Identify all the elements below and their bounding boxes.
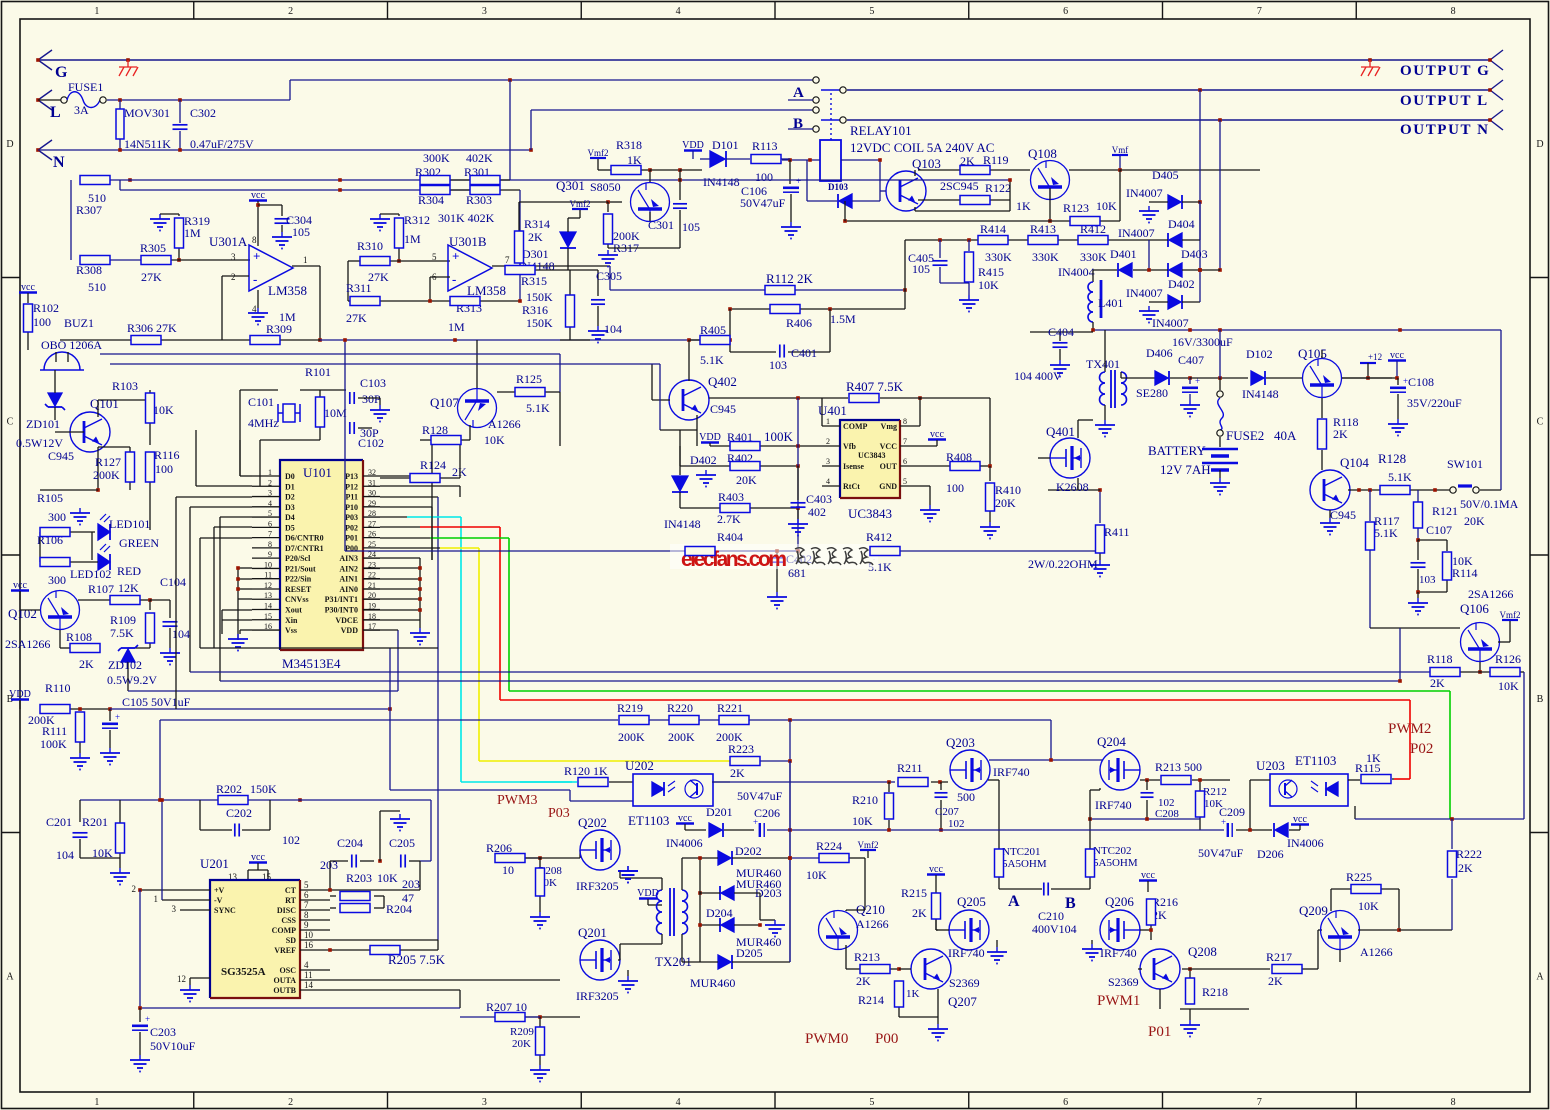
svg-text:L401: L401 — [1098, 296, 1123, 310]
svg-text:P02: P02 — [1410, 741, 1433, 757]
svg-text:R219: R219 — [617, 701, 643, 715]
svg-text:0.5W12V: 0.5W12V — [16, 436, 63, 450]
svg-text:VCC: VCC — [880, 442, 898, 451]
svg-text:203: 203 — [402, 877, 420, 891]
svg-text:A1266: A1266 — [856, 917, 889, 931]
svg-text:C404: C404 — [1048, 325, 1074, 339]
svg-text:50V47uF: 50V47uF — [1198, 846, 1244, 860]
svg-text:3A: 3A — [74, 103, 89, 117]
svg-text:12: 12 — [177, 974, 186, 984]
svg-text:R311: R311 — [346, 281, 372, 295]
svg-text:6: 6 — [1063, 1097, 1068, 1108]
svg-text:2K: 2K — [1430, 676, 1445, 690]
svg-text:PWM0: PWM0 — [805, 1031, 848, 1047]
svg-text:R310: R310 — [357, 239, 383, 253]
svg-text:U301B: U301B — [449, 234, 487, 249]
svg-text:+12: +12 — [1368, 352, 1382, 362]
svg-text:D: D — [1536, 139, 1543, 150]
svg-text:2SA1266: 2SA1266 — [5, 637, 50, 651]
svg-text:P00: P00 — [875, 1031, 898, 1047]
svg-text:B: B — [1065, 895, 1076, 912]
svg-text:D0: D0 — [285, 472, 295, 481]
svg-text:27K: 27K — [346, 311, 367, 325]
svg-text:50V47uF: 50V47uF — [737, 789, 783, 803]
svg-text:Q208: Q208 — [1188, 944, 1217, 959]
svg-text:SW101: SW101 — [1447, 457, 1483, 471]
svg-text:P03: P03 — [345, 513, 358, 522]
svg-text:IN4004: IN4004 — [1058, 265, 1095, 279]
svg-text:-: - — [452, 272, 456, 287]
svg-text:P22/Sin: P22/Sin — [285, 575, 312, 584]
svg-text:10K: 10K — [852, 814, 873, 828]
svg-text:8: 8 — [252, 235, 257, 245]
svg-text:P03: P03 — [548, 806, 570, 821]
svg-text:IN4007: IN4007 — [1152, 316, 1189, 330]
svg-text:R109: R109 — [110, 613, 136, 627]
svg-text:R128: R128 — [1378, 451, 1406, 466]
svg-text:50V47uF: 50V47uF — [740, 196, 786, 210]
svg-text:R103: R103 — [112, 379, 138, 393]
svg-text:RELAY101: RELAY101 — [850, 123, 912, 138]
svg-text:6: 6 — [1063, 6, 1068, 17]
svg-text:R212: R212 — [1203, 786, 1227, 798]
svg-text:P10: P10 — [345, 503, 358, 512]
svg-text:1: 1 — [154, 894, 159, 904]
svg-text:C108: C108 — [1408, 375, 1434, 389]
svg-text:S8050: S8050 — [590, 180, 621, 194]
svg-text:R112 2K: R112 2K — [766, 271, 813, 286]
svg-text:+: + — [145, 1014, 150, 1024]
svg-text:R127: R127 — [95, 455, 121, 469]
svg-text:1K: 1K — [1016, 199, 1031, 213]
svg-text:104: 104 — [56, 848, 74, 862]
svg-text:R211: R211 — [897, 761, 923, 775]
svg-text:Vmf2: Vmf2 — [858, 840, 879, 850]
svg-text:5: 5 — [304, 880, 309, 890]
svg-text:2K: 2K — [1333, 427, 1348, 441]
svg-text:S2369: S2369 — [1108, 975, 1139, 989]
svg-text:Q301: Q301 — [556, 178, 585, 193]
svg-text:104: 104 — [604, 322, 622, 336]
svg-text:1.5M: 1.5M — [830, 312, 856, 326]
svg-text:VDD: VDD — [341, 626, 359, 635]
svg-text:R307: R307 — [76, 203, 102, 217]
svg-text:10K: 10K — [153, 403, 174, 417]
svg-text:Q402: Q402 — [708, 374, 737, 389]
svg-text:D402: D402 — [1168, 277, 1195, 291]
svg-text:C305: C305 — [596, 269, 622, 283]
svg-text:C210: C210 — [1038, 909, 1064, 923]
svg-text:D402: D402 — [690, 453, 717, 467]
svg-text:SG3525A: SG3525A — [221, 966, 266, 978]
svg-text:A: A — [793, 85, 804, 101]
svg-text:50V10uF: 50V10uF — [150, 1039, 196, 1053]
svg-text:1: 1 — [303, 255, 308, 265]
svg-text:103: 103 — [1419, 574, 1436, 586]
svg-text:R110: R110 — [45, 681, 71, 695]
svg-text:R120 1K: R120 1K — [564, 764, 608, 778]
svg-text:5A5OHM: 5A5OHM — [1002, 858, 1047, 870]
svg-text:10: 10 — [502, 863, 514, 877]
svg-text:C: C — [7, 417, 14, 428]
svg-text:OUTB: OUTB — [273, 986, 296, 995]
svg-text:N: N — [53, 154, 65, 171]
svg-text:IRF740: IRF740 — [1095, 798, 1132, 812]
svg-text:27K: 27K — [141, 270, 162, 284]
svg-text:OBO 1206A: OBO 1206A — [41, 338, 102, 352]
svg-text:RESET: RESET — [285, 585, 312, 594]
svg-text:200K: 200K — [618, 730, 645, 744]
svg-text:OUTA: OUTA — [273, 976, 296, 985]
svg-text:+: + — [796, 176, 801, 186]
svg-text:Q101: Q101 — [90, 396, 119, 411]
svg-text:R114: R114 — [1452, 566, 1478, 580]
svg-text:P20/Scl: P20/Scl — [285, 554, 311, 563]
svg-text:C945: C945 — [48, 449, 74, 463]
svg-text:301K 402K: 301K 402K — [438, 211, 495, 225]
svg-text:R204: R204 — [386, 902, 412, 916]
svg-text:7: 7 — [1257, 1097, 1262, 1108]
svg-text:R217: R217 — [1266, 950, 1292, 964]
svg-text:5: 5 — [869, 1097, 874, 1108]
svg-text:P11: P11 — [346, 493, 358, 502]
svg-text:MOV301: MOV301 — [124, 106, 170, 120]
svg-text:Vmf2: Vmf2 — [1500, 610, 1521, 620]
svg-text:1M: 1M — [184, 226, 201, 240]
svg-text:4MHz: 4MHz — [248, 416, 279, 430]
svg-text:Q203: Q203 — [946, 735, 975, 750]
svg-text:D102: D102 — [1246, 347, 1273, 361]
svg-text:9: 9 — [304, 920, 309, 930]
svg-text:R414: R414 — [980, 222, 1006, 236]
svg-text:D6/CNTR0: D6/CNTR0 — [285, 534, 324, 543]
svg-text:IRF740: IRF740 — [993, 765, 1030, 779]
svg-text:RtCt: RtCt — [843, 482, 860, 491]
svg-text:5.1K: 5.1K — [526, 401, 550, 415]
svg-text:GND: GND — [879, 482, 897, 491]
svg-text:C945: C945 — [1330, 508, 1356, 522]
svg-text:Xout: Xout — [285, 606, 302, 615]
svg-text:R113: R113 — [752, 139, 778, 153]
svg-text:R101: R101 — [305, 365, 331, 379]
svg-text:IRF3205: IRF3205 — [576, 989, 619, 1003]
svg-text:330K: 330K — [1080, 250, 1107, 264]
svg-text:R312: R312 — [404, 213, 430, 227]
svg-text:200K: 200K — [93, 468, 120, 482]
svg-text:6: 6 — [903, 457, 907, 466]
svg-text:8: 8 — [1451, 6, 1456, 17]
svg-text:CSS: CSS — [281, 916, 296, 925]
svg-text:330K: 330K — [1032, 250, 1059, 264]
svg-text:R221: R221 — [717, 701, 743, 715]
svg-text:IN4148: IN4148 — [703, 175, 740, 189]
svg-text:35V/220uF: 35V/220uF — [1407, 396, 1462, 410]
svg-text:0.47uF/275V: 0.47uF/275V — [190, 137, 254, 151]
svg-text:D204: D204 — [706, 906, 733, 920]
svg-text:R404: R404 — [717, 530, 743, 544]
svg-text:OUTPUT G: OUTPUT G — [1400, 63, 1490, 79]
svg-text:Q202: Q202 — [578, 815, 607, 830]
svg-text:8: 8 — [304, 910, 309, 920]
svg-text:Q206: Q206 — [1105, 894, 1134, 909]
svg-text:20K: 20K — [736, 473, 757, 487]
svg-text:1K: 1K — [906, 988, 920, 1000]
svg-text:R102: R102 — [33, 301, 59, 315]
svg-text:C403: C403 — [806, 492, 832, 506]
svg-text:RT: RT — [285, 896, 296, 905]
svg-text:C105 50V1uF: C105 50V1uF — [122, 695, 191, 709]
svg-text:C207: C207 — [935, 806, 959, 818]
svg-text:16: 16 — [304, 940, 314, 950]
svg-text:Q205: Q205 — [957, 894, 986, 909]
svg-text:4: 4 — [304, 960, 309, 970]
svg-text:FUSE1: FUSE1 — [68, 80, 103, 94]
svg-text:+: + — [115, 712, 120, 722]
svg-text:D2: D2 — [285, 493, 295, 502]
svg-text:AIN3: AIN3 — [339, 554, 358, 563]
svg-text:Q201: Q201 — [578, 925, 607, 940]
svg-text:105: 105 — [292, 225, 310, 239]
svg-text:7: 7 — [903, 437, 907, 446]
svg-text:R316: R316 — [522, 303, 548, 317]
svg-text:+: + — [452, 249, 459, 264]
svg-text:C102: C102 — [358, 436, 384, 450]
svg-text:2K: 2K — [912, 906, 927, 920]
svg-text:5.1K: 5.1K — [700, 353, 724, 367]
svg-text:R203: R203 — [346, 871, 372, 885]
svg-text:Vmg: Vmg — [881, 422, 897, 431]
svg-text:500: 500 — [957, 790, 975, 804]
svg-text:10K: 10K — [806, 868, 827, 882]
svg-text:3: 3 — [231, 252, 236, 262]
svg-text:+V: +V — [214, 886, 225, 895]
svg-text:SE280: SE280 — [1136, 386, 1168, 400]
svg-text:PWM1: PWM1 — [1097, 993, 1140, 1009]
svg-text:R314: R314 — [524, 217, 550, 231]
svg-text:R202: R202 — [216, 782, 242, 796]
svg-text:100K: 100K — [40, 737, 67, 751]
svg-text:20K: 20K — [512, 1038, 531, 1050]
svg-text:R118: R118 — [1427, 652, 1453, 666]
svg-text:+: + — [253, 249, 260, 264]
svg-text:Q204: Q204 — [1097, 734, 1126, 749]
svg-text:402K: 402K — [466, 151, 493, 165]
svg-text:C101: C101 — [248, 395, 274, 409]
svg-text:COMP: COMP — [272, 926, 297, 935]
svg-text:C407: C407 — [1178, 353, 1204, 367]
svg-text:C204: C204 — [337, 836, 363, 850]
svg-text:DISC: DISC — [277, 906, 296, 915]
svg-text:3: 3 — [826, 457, 830, 466]
svg-text:1M: 1M — [448, 320, 465, 334]
svg-text:P30/INT0: P30/INT0 — [325, 606, 358, 615]
svg-text:300K: 300K — [423, 151, 450, 165]
svg-text:100: 100 — [33, 315, 51, 329]
svg-text:2: 2 — [231, 272, 236, 282]
svg-text:C301: C301 — [648, 218, 674, 232]
svg-text:10K: 10K — [978, 278, 999, 292]
svg-text:C209: C209 — [1219, 805, 1245, 819]
svg-text:C: C — [1537, 417, 1544, 428]
svg-text:P12: P12 — [345, 482, 358, 491]
svg-text:5.1K: 5.1K — [1374, 526, 1398, 540]
svg-text:B: B — [1537, 694, 1544, 705]
svg-text:Q103: Q103 — [912, 156, 941, 171]
svg-text:50V/0.1MA: 50V/0.1MA — [1460, 497, 1519, 511]
svg-text:P21/Sout: P21/Sout — [285, 564, 316, 573]
svg-text:8: 8 — [1451, 1097, 1456, 1108]
svg-text:5: 5 — [432, 252, 437, 262]
svg-text:R124: R124 — [420, 458, 446, 472]
svg-text:K2608: K2608 — [1056, 480, 1089, 494]
svg-text:R214: R214 — [858, 993, 884, 1007]
svg-text:C205: C205 — [389, 836, 415, 850]
svg-text:U301A: U301A — [209, 234, 248, 249]
svg-text:U203: U203 — [1256, 758, 1285, 773]
svg-text:R225: R225 — [1346, 870, 1372, 884]
svg-text:NTC201: NTC201 — [1002, 846, 1041, 858]
svg-text:NTC202: NTC202 — [1093, 845, 1132, 857]
svg-text:100: 100 — [155, 462, 173, 476]
svg-text:D7/CNTR1: D7/CNTR1 — [285, 544, 324, 553]
svg-text:IN4148: IN4148 — [1242, 387, 1279, 401]
svg-text:A: A — [1536, 972, 1544, 983]
svg-text:P02: P02 — [345, 523, 358, 532]
svg-text:D4: D4 — [285, 513, 295, 522]
svg-text:8: 8 — [903, 417, 907, 426]
svg-text:150K: 150K — [526, 316, 553, 330]
svg-text:COMP: COMP — [843, 422, 868, 431]
svg-text:30P: 30P — [362, 392, 381, 406]
svg-text:510: 510 — [88, 280, 106, 294]
svg-text:4: 4 — [676, 6, 681, 17]
svg-text:102: 102 — [948, 818, 965, 830]
svg-text:100: 100 — [755, 170, 773, 184]
svg-text:150K: 150K — [250, 782, 277, 796]
svg-text:R315: R315 — [521, 274, 547, 288]
svg-text:D405: D405 — [1152, 168, 1179, 182]
svg-text:C107: C107 — [1426, 523, 1452, 537]
svg-text:D103: D103 — [828, 182, 848, 192]
svg-text:AIN0: AIN0 — [339, 585, 358, 594]
svg-text:CNVss: CNVss — [285, 595, 309, 604]
svg-text:UC3843: UC3843 — [848, 506, 892, 521]
svg-text:D404: D404 — [1168, 217, 1195, 231]
svg-text:D202: D202 — [735, 844, 762, 858]
svg-text:LM358: LM358 — [268, 283, 307, 298]
svg-text:D5: D5 — [285, 523, 295, 532]
svg-text:1M: 1M — [404, 232, 421, 246]
svg-text:10K: 10K — [1358, 899, 1379, 913]
svg-text:IN4007: IN4007 — [1118, 226, 1155, 240]
svg-text:GREEN: GREEN — [119, 536, 159, 550]
svg-text:C103: C103 — [360, 376, 386, 390]
svg-text:-V: -V — [214, 896, 223, 905]
svg-text:R407 7.5K: R407 7.5K — [846, 379, 904, 394]
svg-text:C302: C302 — [190, 106, 216, 120]
svg-text:2K: 2K — [79, 657, 94, 671]
svg-text:PWM3: PWM3 — [497, 793, 537, 808]
svg-text:C208: C208 — [1155, 808, 1179, 820]
svg-text:14N511K: 14N511K — [124, 137, 171, 151]
svg-text:BATTERY: BATTERY — [1148, 443, 1206, 458]
svg-text:AIN1: AIN1 — [339, 575, 358, 584]
svg-text:-: - — [253, 272, 257, 287]
svg-text:Vmf: Vmf — [1112, 145, 1129, 155]
svg-text:12VDC COIL 5A 240V AC: 12VDC COIL 5A 240V AC — [850, 140, 994, 155]
svg-text:14: 14 — [304, 980, 314, 990]
svg-text:Vss: Vss — [285, 626, 297, 635]
svg-text:5: 5 — [869, 6, 874, 17]
svg-text:C401: C401 — [791, 346, 817, 360]
svg-text:OSC: OSC — [280, 966, 297, 975]
svg-text:103: 103 — [769, 358, 787, 372]
svg-text:R306 27K: R306 27K — [127, 321, 177, 335]
svg-text:A: A — [1008, 893, 1020, 910]
svg-text:7: 7 — [505, 255, 510, 265]
svg-text:2W/0.22OHM: 2W/0.22OHM — [1028, 557, 1098, 571]
svg-text:1: 1 — [826, 417, 830, 426]
svg-text:R123: R123 — [1063, 201, 1089, 215]
svg-text:D406: D406 — [1146, 346, 1173, 360]
svg-text:2: 2 — [288, 1097, 293, 1108]
svg-text:5.1K: 5.1K — [1388, 470, 1412, 484]
svg-text:D3: D3 — [285, 503, 295, 512]
svg-text:P13: P13 — [345, 472, 358, 481]
svg-text:Vmf2: Vmf2 — [588, 148, 609, 158]
svg-text:R218: R218 — [1202, 985, 1228, 999]
svg-text:R415: R415 — [978, 265, 1004, 279]
svg-text:10K: 10K — [484, 433, 505, 447]
svg-text:C202: C202 — [226, 806, 252, 820]
svg-text:IN4148: IN4148 — [664, 517, 701, 531]
svg-text:IRF740: IRF740 — [948, 946, 985, 960]
svg-text:A: A — [6, 972, 14, 983]
svg-text:16V/3300uF: 16V/3300uF — [1172, 335, 1233, 349]
svg-text:D205: D205 — [736, 946, 763, 960]
svg-text:R210: R210 — [852, 793, 878, 807]
svg-text:OUTPUT N: OUTPUT N — [1400, 122, 1490, 138]
svg-text:104 400V: 104 400V — [1014, 369, 1062, 383]
svg-text:R318: R318 — [616, 138, 642, 152]
svg-text:104: 104 — [172, 627, 190, 641]
svg-text:VDCE: VDCE — [335, 616, 358, 625]
svg-text:12K: 12K — [118, 581, 139, 595]
svg-text:R108: R108 — [66, 630, 92, 644]
svg-text:300: 300 — [48, 573, 66, 587]
svg-text:R213 500: R213 500 — [1155, 760, 1202, 774]
svg-text:IN4007: IN4007 — [1126, 286, 1163, 300]
svg-text:OUT: OUT — [880, 462, 898, 471]
svg-text:3: 3 — [482, 1097, 487, 1108]
svg-text:FUSE2: FUSE2 — [1226, 428, 1264, 443]
svg-text:2K: 2K — [1268, 974, 1283, 988]
svg-text:Q209: Q209 — [1299, 903, 1328, 918]
svg-text:MUR460: MUR460 — [690, 976, 735, 990]
svg-text:IN4006: IN4006 — [666, 836, 703, 850]
svg-text:11: 11 — [304, 970, 313, 980]
svg-text:Q108: Q108 — [1028, 146, 1057, 161]
svg-text:U201: U201 — [200, 856, 229, 871]
svg-text:105: 105 — [912, 262, 930, 276]
svg-text:20K: 20K — [1464, 514, 1485, 528]
svg-text:IN4007: IN4007 — [1126, 186, 1163, 200]
svg-text:4: 4 — [676, 1097, 681, 1108]
svg-text:B: B — [793, 116, 803, 132]
svg-text:Q106: Q106 — [1460, 601, 1489, 616]
svg-text:R116: R116 — [154, 448, 180, 462]
svg-text:C945: C945 — [710, 402, 736, 416]
